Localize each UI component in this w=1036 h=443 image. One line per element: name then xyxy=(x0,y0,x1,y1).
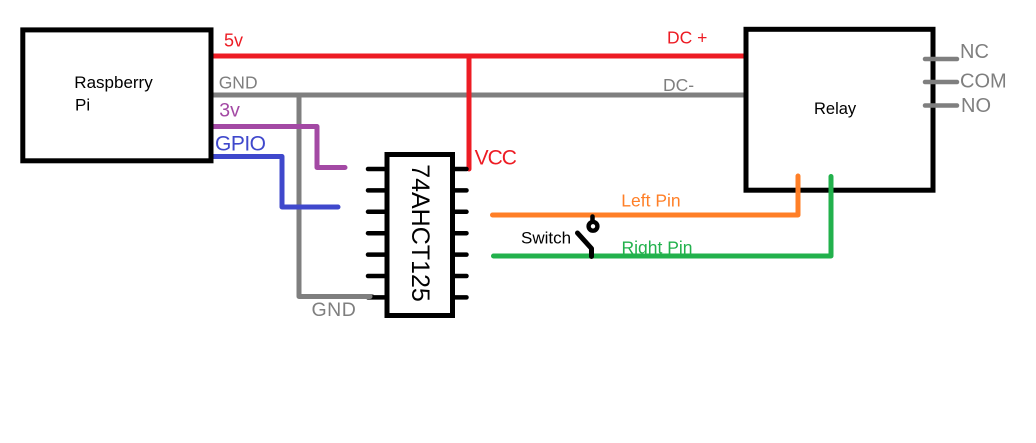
svg-text:GPIO: GPIO xyxy=(215,133,266,156)
svg-text:GND: GND xyxy=(219,73,258,93)
svg-text:Switch: Switch xyxy=(521,228,571,247)
svg-text:Relay: Relay xyxy=(814,100,857,118)
svg-text:Right Pin: Right Pin xyxy=(622,238,693,258)
svg-text:3v: 3v xyxy=(219,99,240,121)
svg-text:74AHCT125: 74AHCT125 xyxy=(406,164,434,302)
svg-text:GND: GND xyxy=(312,299,357,321)
svg-text:NC: NC xyxy=(960,41,989,63)
svg-text:VCC: VCC xyxy=(475,146,517,169)
svg-text:DC-: DC- xyxy=(663,75,694,95)
svg-text:NO: NO xyxy=(961,95,991,117)
svg-text:Pi: Pi xyxy=(75,95,90,114)
svg-text:Raspberry: Raspberry xyxy=(74,73,153,92)
svg-text:COM: COM xyxy=(960,71,1007,93)
svg-text:5v: 5v xyxy=(224,31,243,51)
svg-text:DC +: DC + xyxy=(667,28,707,48)
svg-text:Left Pin: Left Pin xyxy=(621,191,680,211)
